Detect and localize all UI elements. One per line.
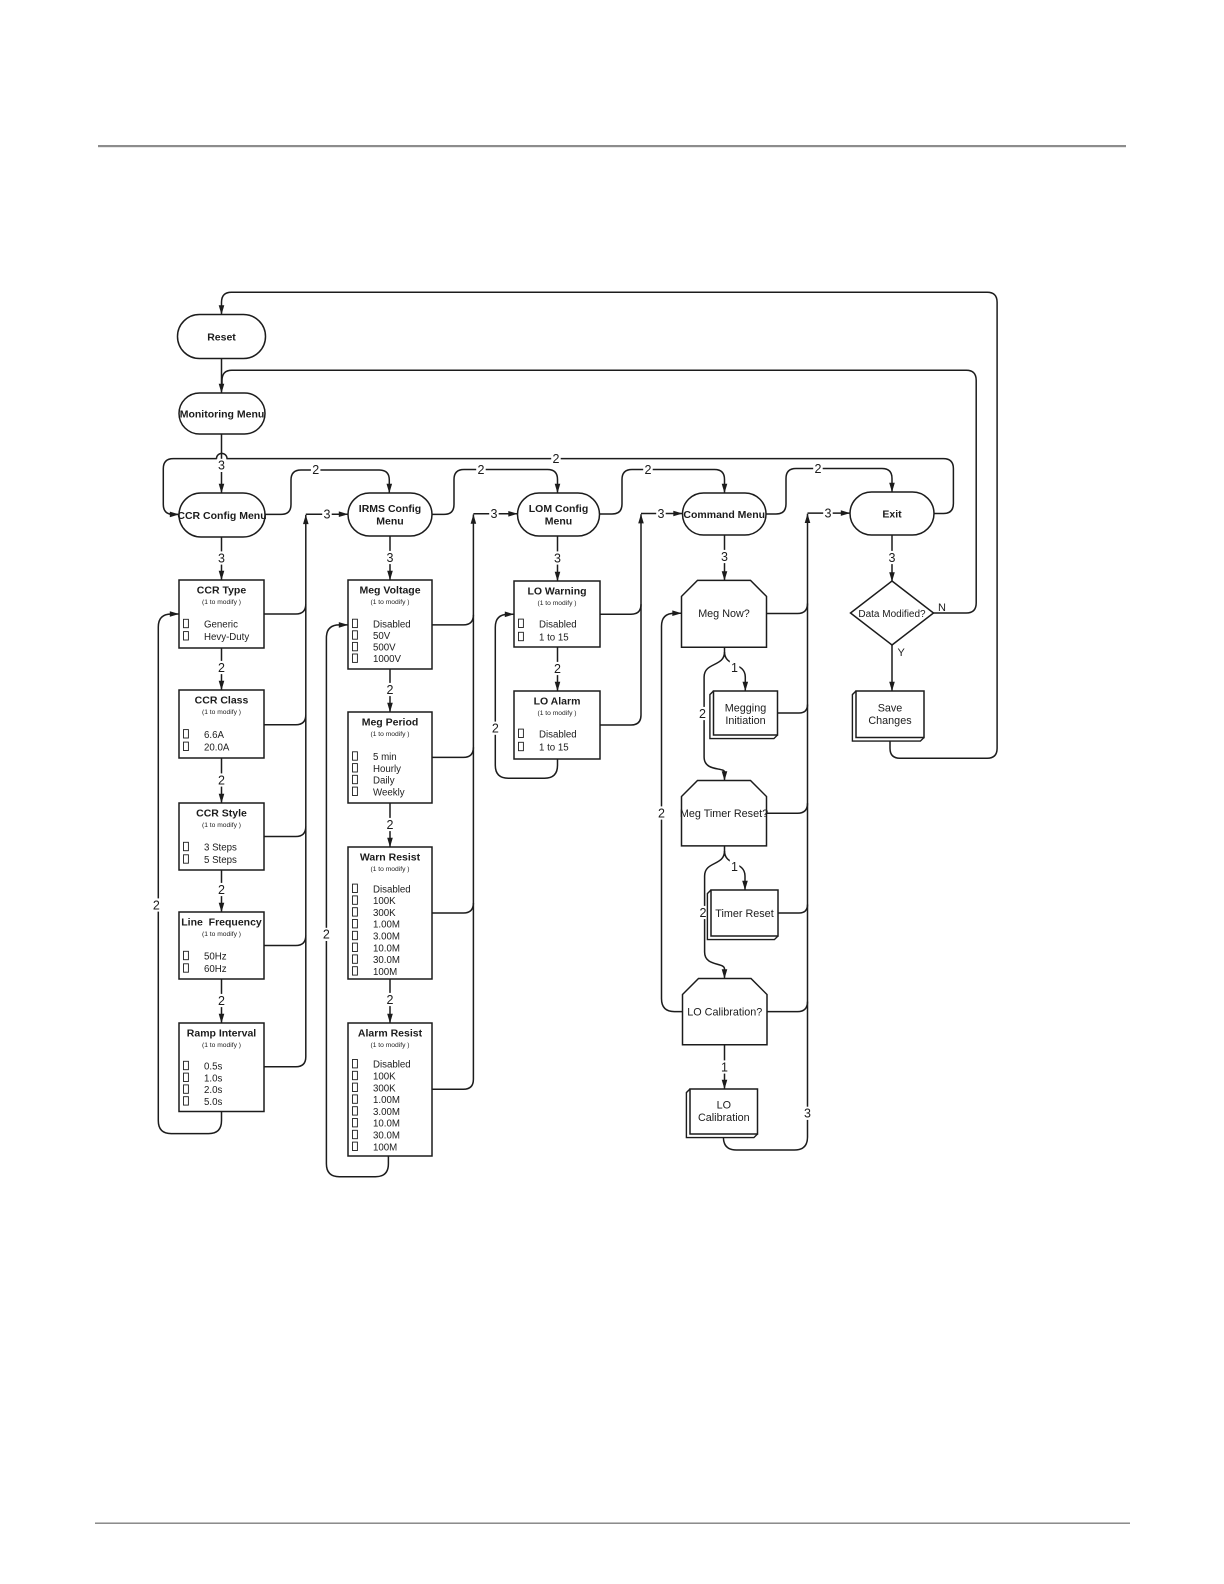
label 3 Monitoring to CCR: [217, 459, 227, 472]
terminator CCR Config Menu: [177, 493, 266, 537]
svg-text:2: 2: [700, 906, 707, 920]
shape LO Calibration question: [683, 979, 768, 1045]
svg-text:(1 to modify ): (1 to modify ): [370, 866, 409, 873]
svg-text:(1 to modify ): (1 to modify ): [202, 1042, 241, 1049]
svg-text:300K: 300K: [373, 908, 396, 919]
svg-text:LO Calibration?: LO Calibration?: [687, 1006, 762, 1018]
box CCR Style: [179, 803, 264, 870]
svg-text:Menu: Menu: [545, 516, 572, 528]
svg-text:1: 1: [721, 1060, 728, 1074]
box Line Frequency: [179, 912, 264, 979]
rail CCR boxes to IRMS Config Menu: [264, 515, 306, 1067]
svg-text:Generic: Generic: [204, 620, 238, 631]
shape Timer Reset: [707, 890, 778, 940]
loop LO Alarm back to LO Warning: [495, 614, 557, 778]
svg-text:3.00M: 3.00M: [373, 1107, 400, 1118]
box Alarm Resist: [348, 1023, 432, 1156]
arrow Meg Voltage to Meg Period: [389, 669, 391, 712]
terminator LOM Config Menu: [518, 493, 600, 536]
svg-text:1 to 15: 1 to 15: [539, 743, 569, 754]
svg-text:CCR Type: CCR Type: [197, 585, 247, 597]
svg-text:Disabled: Disabled: [373, 1060, 411, 1071]
svg-text:100K: 100K: [373, 1072, 396, 1083]
svg-text:Alarm Resist: Alarm Resist: [358, 1028, 423, 1040]
svg-text:Meg Period: Meg Period: [362, 717, 419, 729]
rail LOM boxes to Command Menu: [600, 514, 641, 725]
loop Alarm Resist back to Meg Voltage: [326, 625, 388, 1177]
svg-text:Hourly: Hourly: [373, 764, 401, 775]
terminator IRMS Config Menu: [348, 493, 432, 536]
box CCR Class: [179, 690, 264, 758]
svg-text:N: N: [938, 602, 946, 614]
svg-text:300K: 300K: [373, 1083, 396, 1094]
svg-text:2: 2: [153, 898, 160, 912]
arc CCR to IRMS: [265, 470, 389, 514]
svg-text:2.0s: 2.0s: [204, 1085, 222, 1096]
svg-text:(1 to modify ): (1 to modify ): [370, 599, 409, 606]
svg-text:(1 to modify ): (1 to modify ): [537, 600, 576, 607]
svg-text:CCR Style: CCR Style: [196, 808, 247, 820]
arc Command to Exit: [766, 469, 892, 515]
svg-text:2: 2: [218, 994, 225, 1008]
svg-text:10.0M: 10.0M: [373, 943, 400, 954]
svg-text:3: 3: [825, 506, 832, 520]
svg-text:Exit: Exit: [882, 508, 902, 520]
label 3 on command rail: [803, 1107, 813, 1120]
svg-text:3: 3: [218, 459, 225, 473]
svg-text:LO Alarm: LO Alarm: [534, 696, 581, 708]
svg-text:IRMS Config: IRMS Config: [359, 503, 421, 515]
svg-text:2: 2: [218, 883, 225, 897]
svg-text:100M: 100M: [373, 967, 397, 978]
box Meg Period: [348, 712, 432, 803]
svg-text:Megging: Megging: [725, 703, 766, 715]
svg-text:2: 2: [492, 722, 499, 736]
svg-text:3: 3: [658, 507, 665, 521]
svg-text:Save: Save: [878, 702, 903, 714]
branch Meg Now 1 to Megging Initiation: [725, 647, 746, 691]
terminator Reset: [178, 315, 266, 359]
page bottom rule: [95, 1523, 1130, 1524]
svg-text:50Hz: 50Hz: [204, 952, 227, 963]
svg-text:Disabled: Disabled: [373, 619, 411, 630]
svg-text:30.0M: 30.0M: [373, 1131, 400, 1142]
svg-text:3 Steps: 3 Steps: [204, 843, 237, 854]
svg-text:5 Steps: 5 Steps: [204, 855, 237, 866]
svg-text:2: 2: [312, 463, 319, 477]
svg-text:0.5s: 0.5s: [204, 1062, 222, 1073]
arrow Line Frequency to Ramp Interval: [221, 979, 223, 1023]
loop Ramp Interval back to CCR Type: [158, 614, 221, 1134]
svg-text:50V: 50V: [373, 631, 391, 642]
svg-text:(1 to modify ): (1 to modify ): [202, 931, 241, 938]
svg-text:3: 3: [889, 551, 896, 565]
svg-text:CCR Config Menu: CCR Config Menu: [177, 510, 266, 522]
svg-text:Meg Voltage: Meg Voltage: [359, 585, 420, 597]
svg-text:Ramp Interval: Ramp Interval: [187, 1028, 257, 1040]
shape Meg Now question: [682, 580, 767, 647]
svg-text:(1 to modify ): (1 to modify ): [370, 731, 409, 738]
svg-text:CCR Class: CCR Class: [195, 695, 249, 707]
svg-text:Warn Resist: Warn Resist: [360, 852, 421, 864]
svg-text:Reset: Reset: [207, 331, 236, 343]
svg-text:Meg Timer Reset?: Meg Timer Reset?: [680, 808, 768, 820]
arrow IRMS Config Menu to Meg Voltage: [389, 536, 391, 580]
arrow LO Calibration question to LO Calibration: [724, 1045, 726, 1089]
arrow Meg Period to Warn Resist: [389, 803, 391, 847]
svg-text:3.00M: 3.00M: [373, 932, 400, 943]
svg-text:3: 3: [721, 550, 728, 564]
svg-text:10.0M: 10.0M: [373, 1119, 400, 1130]
svg-text:3: 3: [554, 551, 561, 565]
svg-text:Disabled: Disabled: [373, 884, 411, 895]
shape Save Changes: [852, 691, 924, 741]
svg-text:2: 2: [387, 683, 394, 697]
shape Meg Timer Reset question: [680, 781, 768, 846]
arrow Monitoring Menu to CCR Config Menu: [221, 434, 223, 493]
svg-text:Meg Now?: Meg Now?: [698, 608, 750, 620]
terminator Command Menu: [683, 493, 767, 535]
svg-text:2: 2: [699, 707, 706, 721]
arrow Exit to Data Modified: [891, 535, 893, 581]
shape LO Calibration: [686, 1089, 757, 1138]
arrow CCR Type to CCR Class: [221, 648, 223, 690]
svg-text:100M: 100M: [373, 1142, 397, 1153]
svg-text:1: 1: [731, 661, 738, 675]
svg-text:2: 2: [554, 662, 561, 676]
svg-text:LOM Config: LOM Config: [529, 503, 588, 515]
svg-text:Menu: Menu: [376, 516, 403, 528]
svg-text:20.0A: 20.0A: [204, 742, 230, 753]
svg-text:1.00M: 1.00M: [373, 1095, 400, 1106]
svg-text:6.6A: 6.6A: [204, 730, 224, 741]
arrow Command Menu to Meg Now: [724, 535, 726, 580]
svg-text:Line Frequency: Line Frequency: [181, 917, 262, 929]
svg-text:2: 2: [478, 463, 485, 477]
svg-text:2: 2: [553, 452, 560, 466]
svg-text:(1 to modify ): (1 to modify ): [537, 710, 576, 717]
arrow CCR Config Menu to CCR Type: [221, 537, 223, 580]
arc IRMS to LOM: [432, 470, 558, 515]
svg-text:3: 3: [218, 551, 225, 565]
svg-text:3: 3: [324, 508, 331, 522]
box Meg Voltage: [348, 580, 432, 669]
svg-text:Command Menu: Command Menu: [683, 509, 765, 521]
arrow LOM Config Menu to LO Warning: [557, 536, 559, 581]
feedback loop Save Changes to Reset: [222, 292, 998, 758]
feedback loop Data Modified N to Monitoring Menu: [222, 370, 976, 613]
svg-text:3: 3: [491, 507, 498, 521]
arrow Warn Resist to Alarm Resist: [389, 979, 391, 1023]
arrow CCR Class to CCR Style: [221, 758, 223, 803]
shape Megging Initiation: [710, 691, 778, 739]
svg-text:1000V: 1000V: [373, 654, 402, 665]
svg-text:Y: Y: [898, 647, 906, 659]
svg-text:3: 3: [387, 551, 394, 565]
svg-text:2: 2: [218, 773, 225, 787]
svg-text:2: 2: [645, 463, 652, 477]
svg-text:Calibration: Calibration: [698, 1112, 750, 1124]
svg-text:2: 2: [815, 462, 822, 476]
svg-text:1.00M: 1.00M: [373, 920, 400, 931]
page top rule: [98, 145, 1126, 147]
arrow CCR Style to Line Frequency: [221, 870, 223, 912]
box LO Alarm: [514, 691, 600, 759]
svg-text:Changes: Changes: [868, 715, 912, 727]
svg-text:Weekly: Weekly: [373, 787, 405, 798]
svg-text:2: 2: [658, 806, 665, 820]
box LO Warning: [514, 581, 600, 647]
svg-text:Monitoring Menu: Monitoring Menu: [180, 408, 265, 420]
terminator Monitoring Menu: [179, 393, 265, 434]
svg-text:3: 3: [804, 1107, 811, 1121]
svg-text:2: 2: [387, 993, 394, 1007]
svg-text:Disabled: Disabled: [539, 729, 577, 740]
svg-text:LO Warning: LO Warning: [527, 586, 586, 598]
svg-text:Data Modified?: Data Modified?: [858, 609, 926, 620]
rail Command boxes to Exit: [723, 514, 807, 1150]
wrap loop Exit to CCR Config Menu: [163, 453, 953, 514]
svg-text:1.0s: 1.0s: [204, 1073, 222, 1084]
svg-text:5.0s: 5.0s: [204, 1097, 222, 1108]
svg-text:Disabled: Disabled: [539, 619, 577, 630]
svg-text:Hevy-Duty: Hevy-Duty: [204, 632, 249, 643]
svg-text:30.0M: 30.0M: [373, 955, 400, 966]
terminator Exit: [850, 492, 934, 535]
arc LOM to Command: [600, 470, 725, 515]
arrow Data Modified Y to Save Changes: [891, 645, 893, 691]
svg-text:60Hz: 60Hz: [204, 964, 227, 975]
box Ramp Interval: [179, 1023, 264, 1112]
svg-text:Daily: Daily: [373, 776, 395, 787]
svg-text:100K: 100K: [373, 896, 396, 907]
svg-text:2: 2: [387, 818, 394, 832]
decision Data Modified: [851, 581, 934, 645]
svg-text:1: 1: [731, 860, 738, 874]
svg-text:Initiation: Initiation: [725, 715, 765, 727]
rail IRMS boxes to LOM Config Menu: [432, 515, 473, 1090]
arrow Reset to Monitoring Menu: [221, 359, 223, 394]
svg-text:5 min: 5 min: [373, 752, 397, 763]
branch Meg Timer Reset 2 to LO Calibration question: [705, 851, 725, 979]
svg-text:1 to 15: 1 to 15: [539, 633, 569, 644]
loop LO Calibration back to Meg Now: [662, 613, 683, 1011]
svg-text:LO: LO: [717, 1099, 731, 1111]
svg-text:(1 to modify ): (1 to modify ): [370, 1042, 409, 1049]
svg-text:(1 to modify ): (1 to modify ): [202, 599, 241, 606]
arrow LO Warning to LO Alarm: [557, 647, 559, 691]
svg-text:2: 2: [218, 661, 225, 675]
svg-text:Timer Reset: Timer Reset: [715, 908, 773, 920]
svg-text:(1 to modify ): (1 to modify ): [202, 709, 241, 716]
svg-text:2: 2: [323, 928, 330, 942]
box CCR Type: [179, 580, 264, 648]
svg-text:500V: 500V: [373, 643, 396, 654]
svg-text:(1 to modify ): (1 to modify ): [202, 822, 241, 829]
branch Meg Timer Reset 1 to Timer Reset: [725, 846, 746, 890]
label 2 wrap loop: [551, 452, 561, 465]
box Warn Resist: [348, 847, 432, 979]
branch Meg Now 2 to Meg Timer Reset: [704, 652, 724, 781]
